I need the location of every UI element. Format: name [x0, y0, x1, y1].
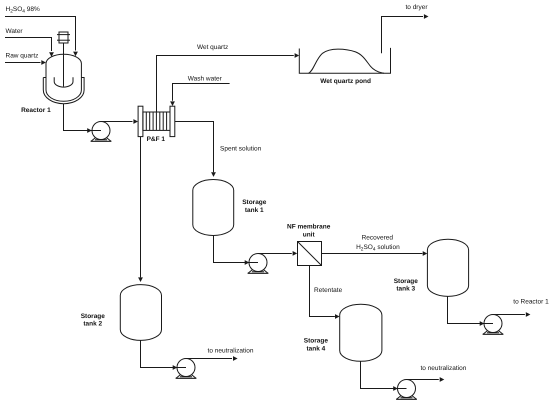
- stream to neutralization wire from pump P4: [407, 377, 445, 382]
- wire pump P2 to NF unit: [258, 251, 297, 256]
- svg-text:Storage: Storage: [81, 313, 106, 320]
- wire tank T2 to pump P3: [141, 340, 187, 370]
- stream to Reactor 1 wire from pump P5: [493, 312, 530, 317]
- label Recovered H2SO4 solution: [356, 235, 400, 253]
- wire tank T4 to pump P4: [361, 361, 407, 391]
- stream Water feed wire: [5, 38, 54, 57]
- stream to neutralization wire from pump P3: [186, 356, 238, 361]
- svg-text:NF membrane: NF membrane: [287, 224, 331, 231]
- svg-text:unit: unit: [303, 231, 316, 238]
- pump P2: [248, 254, 269, 274]
- wire reactor R1 outlet to pump P1: [64, 104, 102, 133]
- stream to dryer wire: [382, 14, 429, 53]
- storage tank T4: [340, 304, 382, 361]
- label Storage tank 2: [81, 313, 106, 328]
- wire tank T1 to pump P2: [214, 236, 259, 265]
- svg-text:P&F 1: P&F 1: [147, 136, 166, 143]
- storage tank T2: [120, 285, 161, 341]
- svg-text:Retentate: Retentate: [314, 287, 343, 294]
- wire filter F1 bottoms to tank T2: [138, 137, 143, 282]
- stream Raw quartz feed wire: [5, 60, 46, 65]
- wet quartz pond heap: [309, 49, 385, 73]
- svg-text:Recovered: Recovered: [362, 235, 394, 242]
- pump P1: [91, 122, 112, 142]
- filter P&F 1 left end plate: [138, 106, 143, 136]
- wire tank T3 to pump P5: [448, 296, 494, 326]
- svg-text:Wash water: Wash water: [188, 76, 223, 83]
- reactor R1 agitator shaft: [63, 43, 65, 87]
- filter P&F 1 right end plate: [170, 106, 175, 136]
- reactor R1 agitator impeller: [54, 77, 73, 87]
- svg-text:to dryer: to dryer: [405, 4, 428, 11]
- reactor R1 motor M: [57, 32, 70, 43]
- wire pump P1 to filter F1: [101, 119, 138, 124]
- label NF membrane unit: [287, 224, 331, 239]
- wet quartz pond basin: [299, 48, 390, 73]
- pump P3: [176, 359, 197, 379]
- storage tank T1: [193, 180, 234, 236]
- stream Wet quartz wire filter to pond: [157, 53, 300, 112]
- filter P&F 1 body: [143, 112, 170, 130]
- svg-text:to Reactor 1: to Reactor 1: [513, 298, 549, 305]
- svg-text:tank 1: tank 1: [245, 207, 264, 214]
- stream H2SO4 98% feed wire: [5, 17, 78, 57]
- label Storage tank 1: [242, 199, 267, 214]
- stream Spent solution wire filter to tank T1: [175, 122, 216, 177]
- svg-text:Storage: Storage: [242, 199, 267, 206]
- svg-text:tank 3: tank 3: [396, 286, 415, 293]
- svg-text:Storage: Storage: [394, 278, 419, 285]
- svg-text:Spent solution: Spent solution: [220, 145, 262, 152]
- stream Wash water wire: [170, 84, 230, 107]
- svg-text:to neutralization: to neutralization: [208, 348, 254, 355]
- svg-text:to neutralization: to neutralization: [420, 365, 466, 372]
- svg-text:tank 4: tank 4: [307, 346, 326, 353]
- NF membrane unit U1: [298, 242, 322, 266]
- svg-text:Water: Water: [6, 28, 24, 35]
- storage tank T3: [427, 239, 468, 296]
- reactor R1 jacket: [43, 78, 84, 104]
- label Storage tank 3: [394, 278, 419, 293]
- svg-text:Storage: Storage: [304, 338, 329, 345]
- svg-text:tank 2: tank 2: [83, 321, 102, 328]
- svg-text:Raw quartz: Raw quartz: [6, 53, 39, 60]
- reactor R1 vessel: [46, 54, 81, 101]
- label Storage tank 4: [304, 338, 329, 353]
- svg-text:H2SO4 solution: H2SO4 solution: [356, 244, 400, 253]
- svg-text:Reactor 1: Reactor 1: [21, 107, 51, 114]
- svg-text:Wet quartz: Wet quartz: [197, 44, 228, 51]
- svg-text:H2SO4 98%: H2SO4 98%: [6, 6, 40, 15]
- pump P5: [483, 315, 504, 335]
- stream Recovered H2SO4 wire NF to tank T3: [322, 251, 428, 256]
- stream Retentate wire NF to tank T4: [310, 266, 340, 319]
- pump P4: [396, 380, 417, 400]
- svg-text:Wet quartz pond: Wet quartz pond: [320, 78, 371, 85]
